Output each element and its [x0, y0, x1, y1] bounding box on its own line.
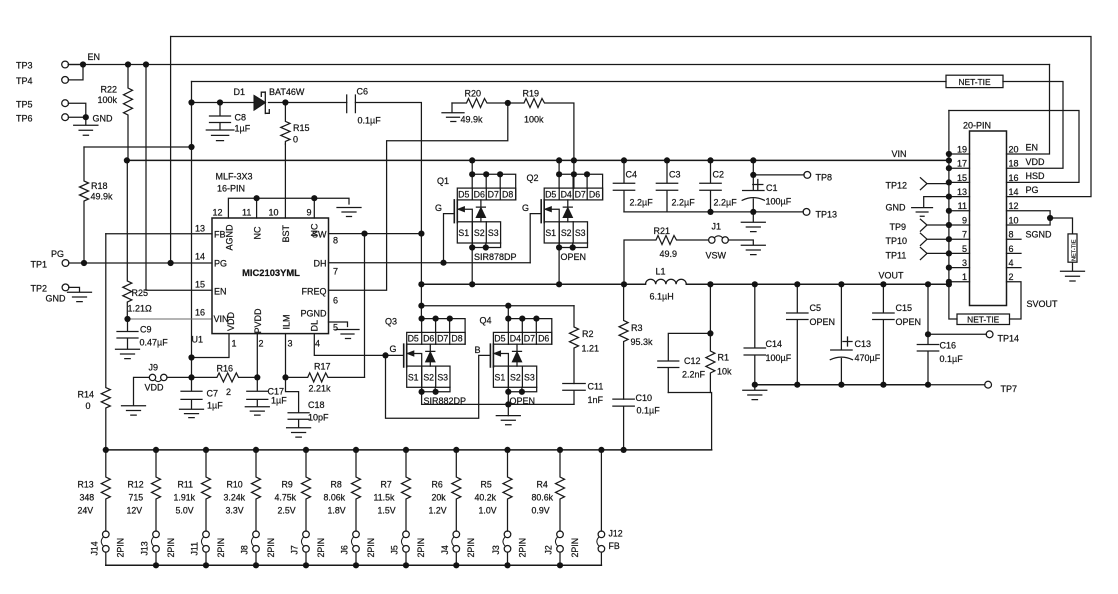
wire power ground line Q3 Q4 — [422, 403, 574, 405]
TP7 test point — [928, 384, 985, 386]
net-tie NT2 bottom SVOUT — [949, 284, 957, 319]
capacitor C13 polarized — [831, 284, 852, 384]
svg-text:R21: R21 — [654, 226, 671, 236]
svg-text:3: 3 — [962, 258, 967, 268]
junction dot R1 top — [707, 330, 713, 336]
svg-text:4: 4 — [1009, 258, 1014, 268]
transistor Q2 OPEN — [559, 160, 574, 188]
svg-text:2.2µF: 2.2µF — [672, 197, 696, 207]
ground C17 — [245, 407, 269, 415]
svg-text:11: 11 — [242, 207, 251, 217]
jumper J14 — [103, 531, 110, 538]
wire Q2 gate riser — [530, 214, 541, 263]
wire IC pin 3 riser — [285, 334, 287, 378]
capacitor C11 — [563, 384, 585, 405]
svg-text:TP4: TP4 — [16, 76, 33, 86]
svg-text:2.2µF: 2.2µF — [714, 197, 738, 207]
net-tie NT3 vertical — [1007, 211, 1073, 234]
svg-text:18: 18 — [1009, 159, 1019, 169]
svg-text:715: 715 — [129, 493, 144, 503]
junction dots FB top rail — [103, 447, 109, 453]
svg-text:Q3: Q3 — [385, 316, 397, 326]
svg-text:10: 10 — [1009, 215, 1019, 225]
svg-text:348: 348 — [80, 493, 95, 503]
svg-text:10pF: 10pF — [308, 413, 329, 423]
svg-text:D7: D7 — [488, 189, 499, 199]
TP3 test point — [62, 61, 69, 68]
svg-text:C2: C2 — [713, 170, 725, 180]
ground J1 VSW — [741, 245, 765, 254]
svg-text:J8: J8 — [240, 545, 250, 554]
wire D1 bootstrap line — [192, 102, 347, 104]
junction dot TP14 tap — [925, 331, 931, 337]
svg-text:D4: D4 — [510, 334, 521, 344]
ground TP6 — [74, 117, 98, 135]
svg-text:TP3: TP3 — [16, 61, 33, 71]
svg-text:R19: R19 — [523, 88, 540, 98]
svg-text:3.3V: 3.3V — [226, 506, 244, 516]
svg-text:4: 4 — [315, 339, 320, 349]
resistor R22 — [124, 65, 133, 161]
svg-text:D7: D7 — [524, 334, 535, 344]
svg-text:S2: S2 — [423, 373, 434, 383]
svg-text:S3: S3 — [575, 228, 586, 238]
svg-text:100k: 100k — [524, 114, 544, 124]
ground C8 — [206, 130, 234, 141]
capacitor C10 — [613, 399, 634, 450]
ground low-side source — [496, 416, 520, 425]
svg-text:J1: J1 — [712, 222, 722, 232]
svg-text:20-PIN: 20-PIN — [963, 121, 991, 131]
svg-text:S2: S2 — [561, 228, 572, 238]
transistor Q1 SIR878DP — [471, 160, 473, 174]
svg-text:VDD: VDD — [226, 311, 236, 331]
TP13 test point — [753, 211, 803, 213]
svg-text:PG: PG — [1026, 185, 1039, 195]
TP5 test point — [62, 100, 69, 107]
svg-text:R5: R5 — [481, 480, 492, 490]
svg-text:C8: C8 — [235, 113, 247, 123]
svg-text:20: 20 — [1009, 144, 1019, 154]
svg-text:49.9k: 49.9k — [461, 114, 484, 124]
capacitor C5 OPEN — [787, 284, 808, 384]
svg-text:0: 0 — [86, 401, 91, 411]
junction dot R20 R19 — [505, 100, 511, 106]
svg-text:95.3k: 95.3k — [631, 337, 654, 347]
svg-text:J2: J2 — [544, 545, 554, 554]
svg-text:2PIN: 2PIN — [466, 538, 476, 558]
wire connector left stubs — [949, 154, 970, 282]
junction dots output gnd rail — [752, 382, 758, 388]
svg-text:VDD: VDD — [1026, 157, 1046, 167]
svg-text:TP5: TP5 — [16, 99, 33, 109]
svg-text:R14: R14 — [78, 390, 95, 400]
junction dots EN rail — [80, 61, 86, 67]
svg-text:2PIN: 2PIN — [216, 538, 226, 558]
resistor R16 — [192, 373, 258, 382]
svg-text:J5: J5 — [390, 545, 400, 554]
capacitor C9 — [117, 319, 138, 349]
svg-text:NET-TIE: NET-TIE — [958, 77, 991, 87]
jumper J8 — [253, 531, 260, 538]
svg-text:C13: C13 — [855, 339, 872, 349]
svg-text:EN: EN — [1026, 143, 1039, 153]
svg-text:S3: S3 — [488, 228, 499, 238]
inductor L1 — [646, 279, 687, 284]
junction dots SW VOUT rail — [469, 281, 475, 287]
TP8 test point — [753, 174, 804, 176]
svg-text:1.2V: 1.2V — [429, 506, 447, 516]
junction dots PG line — [81, 260, 87, 266]
svg-text:C16: C16 — [940, 341, 957, 351]
svg-text:3.24k: 3.24k — [224, 493, 246, 503]
jumper J11 — [203, 531, 210, 538]
svg-text:TP6: TP6 — [16, 113, 33, 123]
wire divider bottom rail — [106, 564, 602, 566]
svg-text:6.1µH: 6.1µH — [650, 292, 674, 302]
ground AGND — [337, 208, 361, 217]
svg-text:J7: J7 — [290, 545, 300, 554]
svg-text:24V: 24V — [78, 506, 94, 516]
junction dots IC bottom nodes — [254, 374, 260, 380]
svg-text:2: 2 — [259, 339, 264, 349]
svg-text:J12: J12 — [609, 529, 623, 539]
svg-text:C5: C5 — [810, 303, 822, 313]
ground TP2 — [68, 292, 92, 301]
svg-text:PG: PG — [51, 249, 64, 259]
svg-text:100µF: 100µF — [766, 353, 792, 363]
svg-text:15: 15 — [957, 173, 967, 183]
svg-text:2PIN: 2PIN — [366, 538, 376, 558]
svg-text:C12: C12 — [684, 356, 701, 366]
wire C6 to SW riser — [355, 103, 421, 234]
jumper J5 — [403, 531, 410, 538]
resistor R20 — [452, 99, 508, 108]
diode D1 BAT46W — [254, 96, 265, 110]
svg-text:GND: GND — [46, 294, 67, 304]
ground C1 — [741, 212, 765, 232]
svg-text:J3: J3 — [491, 545, 501, 554]
svg-text:R11: R11 — [178, 480, 194, 490]
TP14 test point — [928, 333, 986, 335]
wire EN vertical to IC pin 15 — [146, 65, 212, 291]
wire IC pin 5 PGND stub — [329, 322, 348, 327]
svg-text:R2: R2 — [582, 329, 594, 339]
svg-text:1.0V: 1.0V — [479, 506, 497, 516]
wire R18 to VDD link — [84, 146, 192, 148]
jumper J12 FB — [600, 450, 602, 531]
svg-text:12V: 12V — [127, 506, 143, 516]
svg-text:OPEN: OPEN — [896, 317, 922, 327]
svg-text:2: 2 — [1009, 272, 1014, 282]
resistor R18 — [80, 147, 89, 263]
junction dots Q4 pads — [505, 316, 511, 322]
svg-text:Q1: Q1 — [437, 176, 449, 186]
resistor R12 — [152, 450, 161, 531]
svg-text:1.91k: 1.91k — [174, 493, 196, 503]
svg-text:D5: D5 — [545, 189, 556, 199]
svg-text:VOUT: VOUT — [879, 271, 905, 281]
svg-text:0.9V: 0.9V — [532, 506, 550, 516]
svg-text:100µF: 100µF — [766, 197, 792, 207]
junction dots connector bus — [946, 151, 952, 157]
capacitor C7 — [181, 377, 202, 408]
junction dot low side gnd — [505, 401, 511, 407]
svg-text:EN: EN — [88, 52, 101, 62]
jumper J13 — [153, 531, 160, 538]
svg-text:49.9: 49.9 — [660, 249, 678, 259]
resistor R1 — [706, 333, 715, 392]
wire SW stub pin 8 — [329, 233, 422, 235]
svg-text:MIC2103YML: MIC2103YML — [242, 267, 300, 278]
svg-text:TP14: TP14 — [998, 334, 1020, 344]
resistor R7 — [402, 450, 411, 531]
svg-text:R17: R17 — [314, 361, 331, 371]
svg-text:R20: R20 — [465, 88, 482, 98]
svg-text:40.2k: 40.2k — [475, 493, 497, 503]
junction dot DH — [440, 260, 446, 266]
svg-text:TP10: TP10 — [886, 236, 908, 246]
resistor R2 — [570, 306, 579, 384]
wire IC pin 11 riser — [256, 198, 258, 218]
svg-text:R25: R25 — [132, 288, 149, 298]
wire NET-TIE to connector pin 18 — [1003, 82, 1063, 169]
ground R20 — [442, 113, 464, 122]
svg-text:C15: C15 — [896, 303, 913, 313]
svg-text:11: 11 — [958, 201, 967, 211]
ground J9 — [122, 406, 146, 415]
svg-text:2.5V: 2.5V — [278, 506, 296, 516]
svg-text:S1: S1 — [495, 373, 506, 383]
resistor R11 — [202, 450, 211, 531]
svg-text:1µF: 1µF — [235, 124, 251, 134]
svg-text:R7: R7 — [381, 480, 392, 490]
resistor R8 — [352, 450, 361, 531]
svg-text:S3: S3 — [524, 373, 535, 383]
svg-text:2.2µF: 2.2µF — [630, 197, 654, 207]
svg-text:DH: DH — [314, 258, 327, 268]
junction dot C9 node — [124, 316, 130, 322]
svg-text:11.5k: 11.5k — [374, 493, 395, 503]
wire FB line — [106, 233, 212, 235]
svg-text:C6: C6 — [357, 86, 369, 96]
wire VIN rail — [127, 159, 949, 161]
wire BST riser — [284, 144, 286, 218]
svg-text:14: 14 — [195, 251, 205, 261]
svg-text:R22: R22 — [101, 85, 118, 95]
jumper J6 — [353, 531, 360, 538]
svg-text:J4: J4 — [440, 545, 450, 554]
svg-text:16: 16 — [1009, 173, 1019, 183]
wire VIN RC tap to IC pin 16 — [128, 318, 213, 320]
svg-text:ILM: ILM — [281, 314, 291, 329]
capacitor C18 — [286, 377, 310, 427]
junction dots AGND line — [254, 195, 260, 201]
node GND entry connector — [912, 197, 949, 217]
svg-text:5: 5 — [333, 323, 338, 333]
svg-text:D6: D6 — [538, 334, 549, 344]
svg-text:TP12: TP12 — [886, 180, 908, 190]
wire SW rail to L1 — [421, 283, 645, 285]
svg-text:FREQ: FREQ — [301, 286, 326, 296]
resistor R9 — [302, 450, 311, 531]
svg-text:C7: C7 — [207, 389, 219, 399]
svg-text:10: 10 — [269, 207, 279, 217]
resistor R10 — [252, 450, 261, 531]
junction dots Q1 pads — [469, 171, 475, 177]
ground C18 — [287, 428, 311, 437]
jumper J2 — [557, 531, 564, 538]
ground PGND — [336, 330, 359, 339]
wire FB branch drop — [668, 393, 711, 450]
connector J10 20-PIN box — [970, 131, 1007, 306]
svg-text:6: 6 — [1009, 244, 1014, 254]
svg-text:2PIN: 2PIN — [570, 538, 580, 558]
TP10 test point arrow — [920, 233, 949, 245]
resistor R19 — [508, 99, 574, 161]
junction dot VDD R18 — [188, 144, 194, 150]
TP11 test point arrow — [920, 247, 949, 259]
transistor Q3 SIR882DP — [421, 319, 466, 345]
resistor R14 — [101, 234, 110, 450]
svg-text:80.6k: 80.6k — [532, 493, 554, 503]
svg-text:L1: L1 — [656, 266, 666, 276]
svg-text:C1: C1 — [766, 183, 778, 193]
svg-text:HSD: HSD — [1026, 171, 1046, 181]
svg-text:R9: R9 — [282, 480, 293, 490]
junction dots divider bottom rail — [153, 562, 159, 568]
wire input cap ground rail — [624, 211, 753, 213]
svg-text:8.06k: 8.06k — [324, 493, 346, 503]
svg-text:5: 5 — [962, 244, 967, 254]
transistor Q4 OPEN — [507, 306, 509, 319]
junction dots SW riser — [418, 281, 424, 287]
svg-text:9: 9 — [962, 215, 967, 225]
svg-text:2PIN: 2PIN — [166, 538, 176, 558]
ground C7 — [180, 409, 204, 417]
capacitor C1 polarized — [743, 160, 764, 212]
svg-text:16: 16 — [195, 308, 205, 318]
resistor R15 — [281, 103, 290, 145]
svg-text:G: G — [522, 203, 529, 213]
capacitor C17 — [247, 377, 268, 406]
wire Q1 gate riser — [444, 214, 455, 263]
wire DL path to Q3 gate — [314, 334, 403, 356]
junction dots Q3 pads — [419, 316, 425, 322]
wire EN rail — [68, 64, 1049, 66]
svg-text:TP2: TP2 — [31, 284, 48, 294]
wire AGND top line — [228, 198, 349, 218]
svg-text:S1: S1 — [545, 228, 556, 238]
wire FB divider top rail — [106, 449, 712, 451]
svg-text:0.1µF: 0.1µF — [637, 406, 661, 416]
svg-text:R1: R1 — [718, 353, 730, 363]
junction dot TP8 tap — [750, 172, 756, 178]
svg-text:2.21k: 2.21k — [309, 384, 332, 394]
svg-text:13: 13 — [195, 223, 205, 233]
svg-text:MLF-3X3: MLF-3X3 — [216, 172, 253, 182]
svg-text:R13: R13 — [78, 480, 94, 490]
svg-text:Q2: Q2 — [527, 173, 539, 183]
svg-text:VSW: VSW — [706, 250, 727, 260]
junction dot net-tie vertical — [1047, 215, 1053, 221]
resistor R3 — [619, 284, 628, 399]
ground NT3 — [1061, 271, 1085, 281]
svg-text:NET-TIE: NET-TIE — [1071, 239, 1077, 261]
svg-text:NC: NC — [310, 223, 320, 236]
svg-text:1nF: 1nF — [588, 395, 604, 405]
svg-text:R12: R12 — [128, 480, 144, 490]
svg-text:20k: 20k — [432, 493, 447, 503]
svg-text:9: 9 — [307, 207, 312, 217]
wire IC pin 1 VDD link — [192, 334, 230, 358]
capacitor C15 OPEN — [873, 284, 894, 384]
svg-text:J11: J11 — [190, 542, 200, 556]
svg-text:4.75k: 4.75k — [275, 493, 297, 503]
svg-text:C11: C11 — [588, 382, 604, 392]
svg-text:G: G — [390, 344, 397, 354]
svg-text:2PIN: 2PIN — [517, 538, 527, 558]
svg-text:DL: DL — [310, 320, 320, 332]
svg-text:G: G — [435, 203, 442, 213]
wire VDD node to R16 — [167, 376, 192, 378]
svg-text:0.1µF: 0.1µF — [358, 115, 382, 125]
svg-text:1: 1 — [962, 272, 967, 282]
svg-text:7: 7 — [333, 267, 338, 277]
wire IC pin 9 riser — [313, 198, 315, 218]
wire connector left bus — [948, 111, 950, 285]
svg-text:R8: R8 — [331, 480, 342, 490]
svg-text:49.9k: 49.9k — [91, 192, 114, 202]
svg-text:12: 12 — [213, 207, 223, 217]
junction dots VIN rail — [124, 157, 130, 163]
svg-text:GND: GND — [886, 202, 907, 212]
svg-text:R4: R4 — [537, 480, 548, 490]
jumper J1 — [709, 237, 715, 243]
svg-text:B: B — [475, 345, 481, 355]
svg-text:J14: J14 — [89, 541, 99, 555]
svg-text:8: 8 — [333, 235, 338, 245]
svg-text:D5: D5 — [494, 334, 505, 344]
svg-text:13: 13 — [957, 187, 967, 197]
resistor R25 — [123, 160, 132, 319]
wire connector right stubs open — [1007, 239, 1022, 267]
svg-text:PVDD: PVDD — [253, 308, 263, 334]
junction dots D1 line — [188, 99, 194, 105]
svg-text:D7: D7 — [437, 334, 448, 344]
svg-text:1.5V: 1.5V — [378, 506, 396, 516]
svg-text:Q4: Q4 — [480, 316, 492, 326]
svg-text:2: 2 — [226, 387, 231, 397]
svg-text:15: 15 — [195, 280, 205, 290]
resistor R13 — [101, 450, 110, 531]
svg-text:R15: R15 — [293, 123, 310, 133]
svg-text:0.47µF: 0.47µF — [140, 338, 169, 348]
svg-text:C4: C4 — [626, 170, 638, 180]
svg-text:J9: J9 — [149, 363, 159, 373]
svg-text:S1: S1 — [408, 373, 419, 383]
svg-text:R3: R3 — [631, 323, 643, 333]
svg-text:2PIN: 2PIN — [316, 538, 326, 558]
svg-text:VDD: VDD — [145, 383, 165, 393]
resistor R4 — [556, 450, 565, 531]
svg-text:100k: 100k — [98, 95, 118, 105]
wire Q3 Q4 drain rail — [421, 305, 574, 307]
junction dots Q2 pads — [556, 171, 562, 177]
TP4 test point — [62, 77, 69, 84]
wire EN rail drop to connector pin 20 — [1007, 65, 1050, 155]
svg-text:1: 1 — [232, 339, 237, 349]
